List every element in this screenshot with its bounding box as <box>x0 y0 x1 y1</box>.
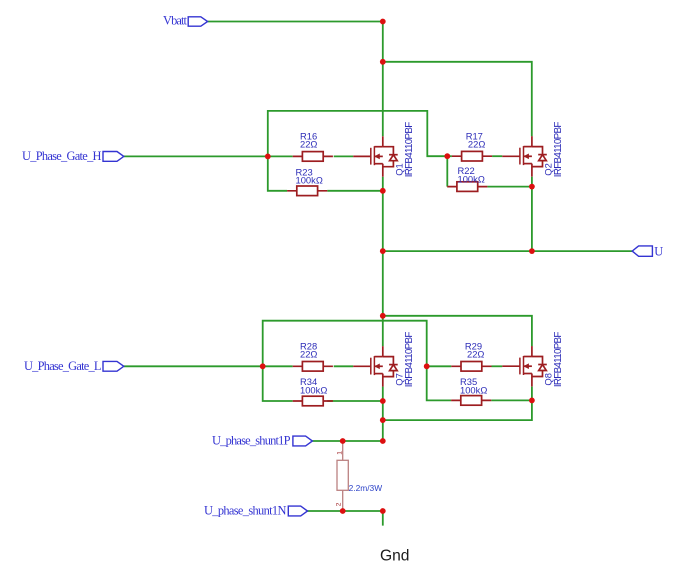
svg-text:22Ω: 22Ω <box>300 349 317 360</box>
svg-text:100kΩ: 100kΩ <box>296 175 323 186</box>
svg-text:22Ω: 22Ω <box>300 139 317 150</box>
svg-text:U_Phase_Gate_H: U_Phase_Gate_H <box>22 149 102 163</box>
svg-text:Q2: Q2 <box>543 163 554 176</box>
svg-text:U_phase_shunt1N: U_phase_shunt1N <box>204 503 286 517</box>
svg-text:IRFB4110PBF: IRFB4110PBF <box>404 332 415 388</box>
svg-text:U_phase_shunt1P: U_phase_shunt1P <box>212 433 291 447</box>
svg-text:2: 2 <box>335 502 342 506</box>
svg-text:Q8: Q8 <box>543 373 554 386</box>
svg-text:IRFB4110PBF: IRFB4110PBF <box>404 122 415 178</box>
svg-text:Q1: Q1 <box>393 163 404 176</box>
svg-text:100kΩ: 100kΩ <box>458 173 485 184</box>
svg-text:Vbatt: Vbatt <box>163 14 188 28</box>
svg-text:22Ω: 22Ω <box>467 349 484 360</box>
svg-text:U_Phase_Gate_L: U_Phase_Gate_L <box>24 359 102 373</box>
svg-text:1: 1 <box>336 451 343 455</box>
svg-text:U: U <box>654 244 663 258</box>
svg-text:IRFB4110PBF: IRFB4110PBF <box>553 332 564 388</box>
svg-text:Gnd: Gnd <box>380 548 409 565</box>
svg-text:Q7: Q7 <box>393 373 404 386</box>
svg-text:100kΩ: 100kΩ <box>300 384 327 395</box>
svg-text:22Ω: 22Ω <box>468 139 485 150</box>
svg-text:100kΩ: 100kΩ <box>460 384 487 395</box>
svg-text:2.2m/3W: 2.2m/3W <box>349 483 383 493</box>
svg-text:IRFB4110PBF: IRFB4110PBF <box>553 122 564 178</box>
